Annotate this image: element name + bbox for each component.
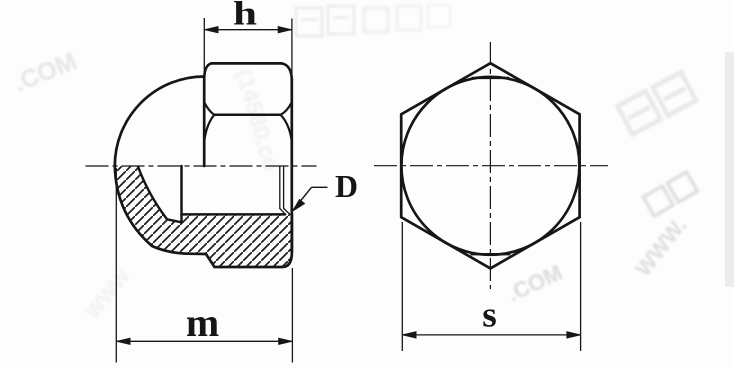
hole left edge bbox=[180, 166, 183, 222]
hex left edge bbox=[203, 77, 206, 166]
bottom chamfer chord bbox=[471, 253, 511, 255]
inscribed circle bbox=[401, 77, 579, 255]
svg-text:D: D bbox=[335, 168, 358, 204]
top chamfer chord bbox=[472, 77, 510, 79]
svg-text:m: m bbox=[186, 300, 219, 345]
waist chamfer arcs right bbox=[281, 103, 292, 141]
horizontal centerline bbox=[374, 165, 608, 167]
hatched section region bbox=[115, 166, 292, 267]
watermark chars right-top bbox=[618, 72, 697, 134]
watermark right edge band bbox=[725, 52, 734, 287]
dome outer arc bbox=[115, 77, 205, 167]
watermark chars bottom-right bbox=[643, 172, 697, 216]
D label leader bbox=[293, 168, 358, 211]
hole bottom line bbox=[182, 213, 286, 216]
top-left chamfer bbox=[204, 63, 211, 78]
watermark chars top-center bbox=[296, 5, 450, 36]
hex right edge bbox=[290, 79, 293, 252]
centerline (axis) left view bbox=[86, 165, 317, 167]
waist chamfer arcs left bbox=[204, 103, 214, 141]
m dimension bbox=[116, 168, 292, 363]
inner crescent curve bbox=[138, 167, 182, 223]
watermark bottom-center COM bbox=[504, 260, 567, 307]
svg-text:s: s bbox=[482, 295, 497, 335]
vertical centerline bbox=[489, 42, 491, 289]
thread thin lines bbox=[279, 166, 281, 208]
waist line bbox=[214, 113, 280, 116]
svg-text:h: h bbox=[233, 0, 257, 33]
h dimension bbox=[204, 0, 292, 79]
s dimension bbox=[402, 222, 580, 351]
bottom-left outer profile bbox=[115, 166, 292, 267]
cap top flat bbox=[212, 62, 282, 65]
watermark .COM top-left bbox=[10, 47, 81, 97]
top-right chamfer bbox=[282, 63, 292, 79]
hexagon bbox=[401, 63, 579, 268]
